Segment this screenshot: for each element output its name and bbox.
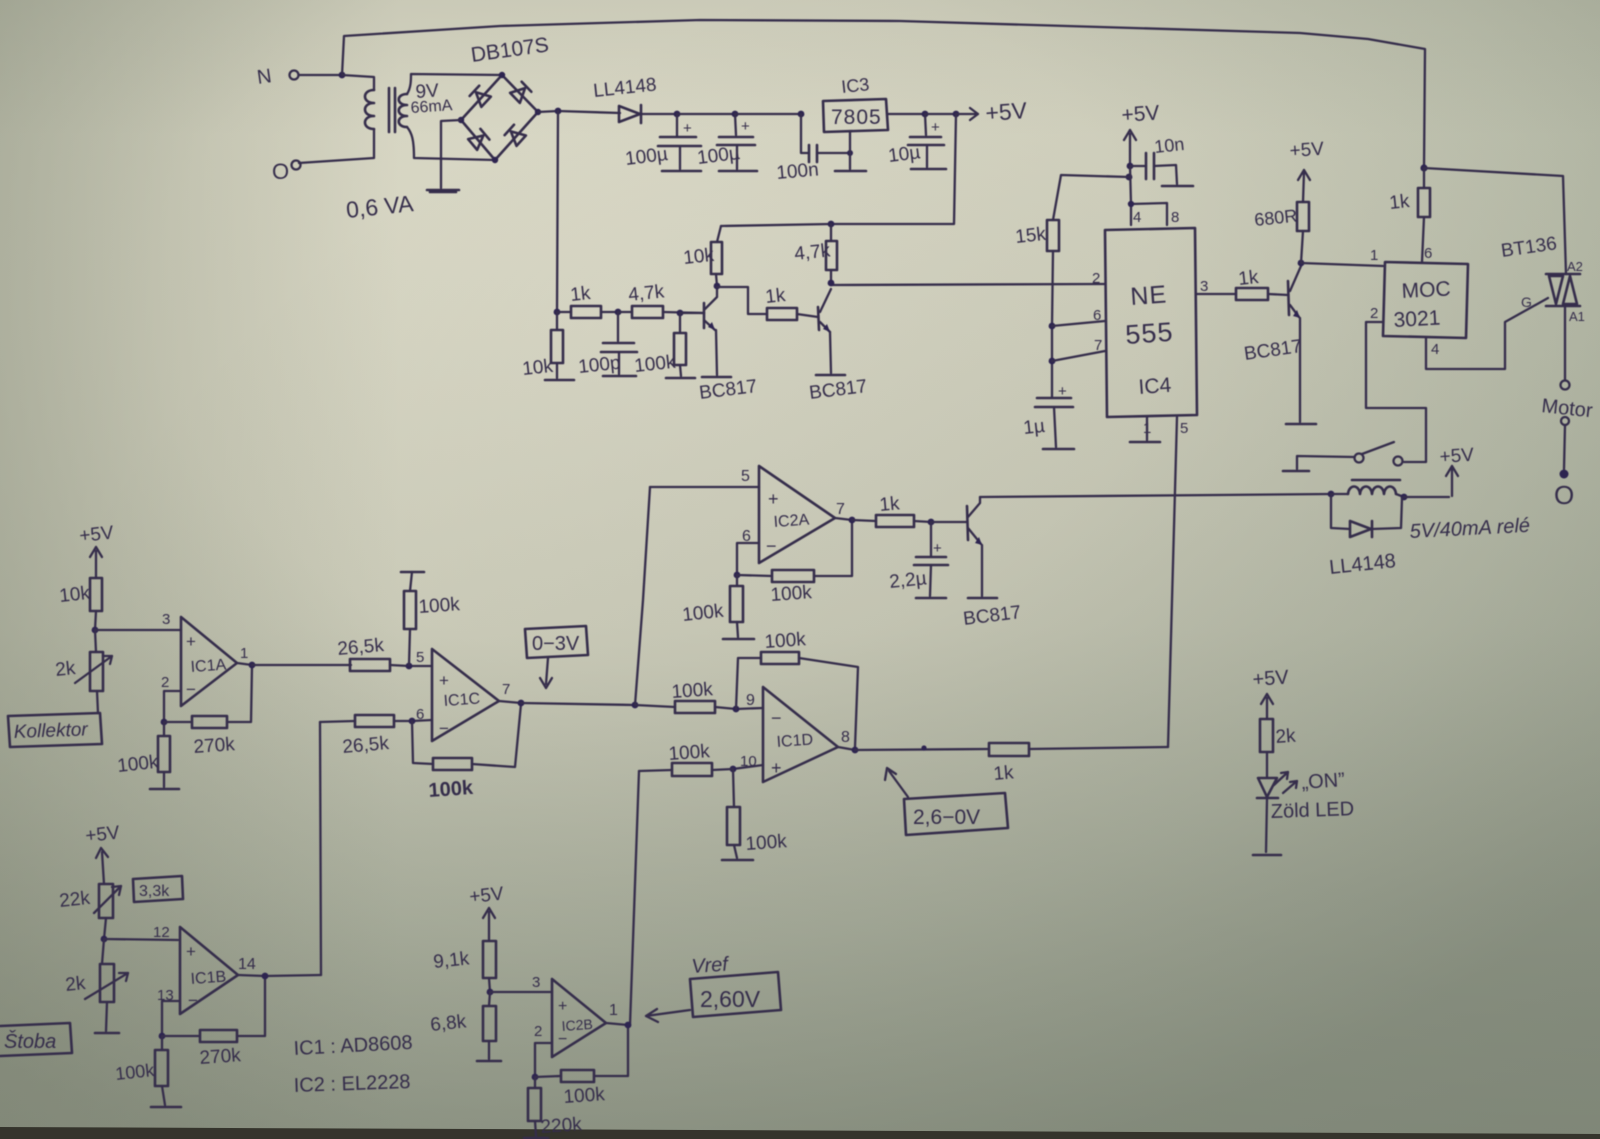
svg-text:2,2µ: 2,2µ (888, 568, 927, 593)
wire +5V rail down to oscillator (721, 114, 956, 227)
svg-text:+5V: +5V (1252, 666, 1290, 691)
label 0,6 VA (345, 190, 415, 223)
wire pin5 (650, 468, 759, 487)
node Q3 collector (1298, 260, 1305, 267)
resistor 9,1k (432, 941, 496, 992)
wire to pin3 (490, 974, 552, 992)
op-amp IC1A (161, 617, 248, 706)
transformer T1 secondary coil (399, 74, 502, 160)
node IC1B output (238, 973, 321, 980)
label 0-3V box with arrow (525, 626, 588, 688)
resistor 270k feedback (162, 977, 265, 1069)
node IC2B output Vref (606, 1022, 631, 1029)
svg-text:7: 7 (1094, 337, 1102, 354)
svg-text:270k: 270k (199, 1045, 242, 1069)
svg-text:7: 7 (502, 681, 510, 698)
node Q1 collector (714, 283, 721, 290)
resistor 26,5k (252, 635, 432, 671)
svg-text:2,6−0V: 2,6−0V (913, 806, 980, 829)
svg-text:1k: 1k (1388, 191, 1411, 214)
svg-text:2,60V: 2,60V (700, 986, 761, 1012)
resistor 1k vertical (1388, 168, 1430, 262)
wire pin10 (730, 765, 763, 772)
wire relay to +5V (1404, 445, 1475, 497)
svg-text:66mA: 66mA (410, 97, 453, 117)
svg-text:1k: 1k (764, 285, 787, 308)
node O terminal (272, 159, 301, 184)
svg-text:1: 1 (240, 645, 248, 662)
wire pin6 (734, 543, 759, 578)
ground LED (1253, 799, 1281, 855)
svg-text:555: 555 (1124, 317, 1174, 350)
pin number labels (1092, 209, 1208, 437)
svg-text:−: − (771, 708, 782, 728)
svg-text:1k: 1k (879, 493, 901, 516)
resistor 6,8k to ground (429, 992, 501, 1061)
power +5V arrow (IC1B divider) (84, 822, 121, 884)
node (733, 706, 740, 713)
transformer T1 primary coil (299, 90, 374, 163)
label 9V 66mA (410, 80, 453, 117)
svg-text:9,1k: 9,1k (432, 948, 470, 973)
op-amp IC1D (740, 687, 850, 782)
label IC1 AD8608 (293, 1032, 413, 1060)
svg-text:IC2A: IC2A (773, 512, 810, 531)
op-amp IC2A (742, 466, 845, 563)
wire top rail (342, 20, 1425, 168)
resistor 100k to ground (114, 1036, 181, 1107)
wire 15k down (1049, 251, 1056, 397)
svg-text:1k: 1k (993, 762, 1015, 785)
wire Q4 collector to relay (980, 491, 1334, 498)
node IC1C output (499, 700, 638, 709)
resistor 100k feedback IC1D (736, 629, 858, 747)
svg-text:6: 6 (1424, 245, 1432, 262)
wire N junction to transformer primary (342, 75, 374, 90)
resistor 100k to ground (681, 575, 754, 639)
resistor 100k to ground (633, 313, 695, 378)
resistor 100k to ground (116, 722, 179, 789)
svg-text:−: − (188, 991, 198, 1010)
wire pin6 (1052, 321, 1105, 326)
trimmer 2k (64, 939, 128, 1033)
svg-text:IC4: IC4 (1138, 374, 1173, 399)
wire to 15k (1053, 175, 1129, 220)
label Vref 2,60V box with arrow (646, 953, 781, 1022)
svg-text:100k: 100k (428, 777, 475, 802)
node IC1D output (838, 747, 858, 754)
svg-text:1k: 1k (1237, 267, 1260, 290)
svg-text:N: N (256, 65, 273, 89)
node (677, 310, 684, 317)
trimmer 22k with 3,3k note (58, 884, 121, 918)
wire (735, 111, 804, 118)
wire Q3 collector to MOC pin1 (1301, 263, 1383, 266)
regulator IC3 7805 (823, 74, 888, 132)
svg-text:100k: 100k (418, 594, 461, 618)
label ON (1301, 769, 1346, 794)
wire from IC1B output up (320, 722, 321, 975)
wire pin2 (161, 691, 181, 725)
svg-text:IC3: IC3 (840, 74, 870, 97)
svg-text:100k: 100k (681, 601, 725, 626)
svg-text:+5V: +5V (468, 883, 505, 908)
svg-text:0−3V: 0−3V (532, 633, 580, 655)
wire to NE555 pin2 (831, 284, 1105, 285)
resistor 100k pull-up with bar (401, 572, 461, 665)
svg-text:Štoba: Štoba (4, 1030, 56, 1053)
capacitor 10n (1130, 134, 1193, 186)
svg-text:Kollektor: Kollektor (13, 719, 88, 743)
resistor 10k to ground (521, 312, 574, 380)
wire Vref up to pin10 resistor (630, 771, 639, 1025)
wire rail to triac A2 (1424, 168, 1566, 274)
label 2,6-0V box with arrow (885, 768, 1008, 835)
trimmer 2k (54, 630, 112, 713)
svg-text:5: 5 (416, 649, 424, 666)
svg-text:2: 2 (161, 674, 169, 691)
wire pin7 (1052, 351, 1105, 361)
svg-text:Vref: Vref (691, 953, 731, 978)
svg-text:MOC: MOC (1401, 277, 1451, 303)
capacitor 1u (1022, 383, 1074, 449)
power +5V arrow (IC1A divider) (78, 522, 115, 578)
node oscillator input (554, 309, 561, 316)
svg-text:G: G (1521, 294, 1532, 310)
svg-text:4: 4 (1431, 341, 1439, 358)
svg-text:100k: 100k (671, 679, 714, 703)
svg-text:−: − (186, 680, 196, 699)
svg-text:+5V: +5V (1439, 445, 1475, 468)
svg-text:2: 2 (1370, 305, 1378, 322)
svg-text:IC1D: IC1D (776, 731, 814, 751)
svg-text:100k: 100k (116, 752, 160, 777)
svg-text:7: 7 (836, 501, 845, 518)
svg-text:22k: 22k (58, 888, 91, 912)
paper bottom edge dark strip (0, 1127, 1600, 1139)
ground (bridge) (427, 120, 461, 192)
svg-text:100k: 100k (114, 1060, 156, 1084)
svg-text:IC1C: IC1C (443, 690, 481, 710)
svg-text:+5V: +5V (1121, 101, 1160, 127)
svg-text:4,7k: 4,7k (793, 240, 831, 265)
svg-text:3: 3 (532, 974, 540, 991)
svg-text:NE: NE (1129, 280, 1168, 310)
svg-text:+: + (558, 998, 567, 1015)
svg-text:−: − (439, 719, 449, 738)
wire pin2 (532, 1043, 552, 1080)
svg-text:5: 5 (1180, 420, 1188, 437)
wire Q1 collector to Q2 base (717, 287, 767, 314)
wire bridge output (538, 108, 620, 115)
svg-text:IC2B: IC2B (561, 1016, 593, 1034)
svg-text:26,5k: 26,5k (342, 733, 391, 758)
switch S1 (1283, 442, 1394, 471)
power +5V arrow (LED) (1252, 666, 1290, 719)
capacitor C1 100u (624, 114, 701, 171)
resistor 100k feedback (535, 1025, 628, 1108)
svg-text:1µ: 1µ (1022, 416, 1046, 439)
svg-text:15k: 15k (1014, 224, 1047, 248)
svg-text:2k: 2k (64, 973, 87, 996)
svg-text:IC2 : EL2228: IC2 : EL2228 (293, 1071, 410, 1097)
transistor Q1 BC817 (680, 286, 758, 404)
capacitor C2 100u (696, 114, 757, 171)
capacitor 2,2u (888, 522, 948, 598)
resistor 1k output (855, 743, 1168, 785)
wire MOC pin2 to switch (1366, 322, 1426, 466)
resistor 270k feedback (164, 666, 252, 758)
transistor Q3 BC817 (1243, 266, 1316, 424)
power +5V arrow (NE555) (1121, 101, 1160, 166)
svg-text:2k: 2k (54, 658, 77, 681)
power +5V arrow (IC2B divider) (468, 883, 505, 941)
node IC2A output (835, 517, 855, 524)
resistor 4,7k horizontal (618, 281, 704, 318)
svg-text:6,8k: 6,8k (429, 1011, 467, 1036)
wire to pin12 (104, 924, 178, 941)
ground pin1 (1130, 417, 1160, 442)
transformer core (389, 88, 395, 132)
svg-text:10n: 10n (1153, 134, 1185, 157)
svg-text:2k: 2k (1275, 726, 1297, 748)
node IC1A output (237, 662, 255, 669)
svg-text:8: 8 (1171, 209, 1179, 226)
node (92, 627, 99, 634)
svg-text:10µ: 10µ (887, 142, 921, 167)
svg-text:100k: 100k (633, 352, 677, 377)
svg-text:+5V: +5V (1289, 139, 1325, 162)
svg-text:A2: A2 (1567, 259, 1583, 274)
svg-text:100k: 100k (668, 741, 711, 765)
wire pins 4,8 (1128, 166, 1167, 225)
resistor 100k feedback IC2A (737, 522, 852, 606)
svg-text:10k: 10k (521, 356, 554, 380)
svg-text:+: + (439, 671, 449, 690)
svg-text:9: 9 (746, 692, 755, 709)
resistor 10k (58, 578, 102, 630)
svg-text:100k: 100k (745, 831, 788, 855)
wire (888, 111, 928, 118)
transistor Q2 BC817 (808, 289, 868, 404)
svg-text:+5V: +5V (78, 522, 115, 547)
node (406, 663, 413, 670)
svg-text:5: 5 (741, 468, 750, 485)
node N terminal (256, 65, 299, 89)
node (409, 718, 416, 725)
svg-text:100k: 100k (563, 1084, 606, 1108)
label Kollektor box (8, 713, 102, 747)
svg-text:A1: A1 (1569, 309, 1585, 324)
svg-text:2: 2 (1092, 270, 1100, 287)
svg-text:Zöld LED: Zöld LED (1270, 798, 1354, 823)
svg-text:3,3k: 3,3k (139, 883, 170, 900)
svg-text:12: 12 (153, 924, 170, 941)
svg-text:+: + (186, 632, 196, 651)
svg-text:270k: 270k (193, 734, 236, 758)
resistor 100k pin9 (635, 679, 763, 713)
relay K1 coil (1331, 480, 1407, 500)
svg-text:100k: 100k (770, 582, 813, 606)
wire (641, 111, 680, 118)
label Stoba box (0, 1023, 72, 1056)
node (101, 918, 108, 942)
resistor 1k horizontal (557, 283, 618, 318)
svg-text:IC1A: IC1A (190, 657, 227, 676)
svg-text:−: − (766, 536, 777, 556)
svg-text:3: 3 (162, 611, 170, 628)
label IC2 EL2228 (293, 1071, 410, 1097)
bridge rectifier DB107S (469, 33, 550, 67)
svg-text:+: + (683, 120, 692, 137)
wire (677, 111, 738, 118)
svg-text:26,5k: 26,5k (337, 635, 386, 660)
svg-text:100n: 100n (776, 159, 820, 184)
resistor 1k (1236, 267, 1288, 300)
node Q2 collector (828, 280, 835, 287)
svg-text:+5V: +5V (985, 97, 1029, 126)
label 3,3k box (133, 876, 183, 902)
svg-text:3: 3 (1200, 278, 1208, 295)
resistor 220k to ground (524, 1077, 583, 1138)
node ink dot on output wire (921, 745, 926, 750)
capacitor C3 100n (776, 114, 866, 184)
svg-text:100p: 100p (577, 353, 621, 378)
resistor 100k to ground (722, 769, 788, 860)
svg-text:+5V: +5V (84, 822, 121, 847)
resistor 100k pin10 (639, 741, 733, 776)
svg-text:3021: 3021 (1393, 307, 1441, 332)
wire N to junction (299, 72, 345, 79)
svg-text:+: + (771, 758, 782, 778)
diode D1 LL4148 (592, 74, 657, 123)
svg-text:6: 6 (1093, 307, 1101, 324)
label Zold LED (1270, 798, 1354, 823)
wire pin3 (1197, 293, 1236, 295)
svg-text:IC1B: IC1B (190, 969, 227, 988)
LED zold (1257, 772, 1297, 798)
op-amp IC2B (534, 979, 618, 1057)
svg-text:1: 1 (609, 1002, 618, 1019)
node +5V output (925, 97, 1028, 126)
transistor Q4 BC817 (962, 497, 1022, 630)
svg-text:100k: 100k (764, 629, 807, 653)
wire MOC pin4 to triac gate (1426, 298, 1548, 369)
resistor 1k (852, 493, 931, 527)
resistor 100k feedback IC1C (412, 704, 521, 802)
resistor 10k vertical (682, 226, 722, 286)
resistor 4,7k vertical (793, 224, 837, 283)
svg-text:7805: 7805 (831, 106, 882, 129)
svg-text:10k: 10k (682, 245, 715, 269)
label relay (1409, 515, 1530, 543)
svg-text:220k: 220k (540, 1114, 583, 1138)
svg-text:+: + (931, 119, 940, 136)
op-amp IC1B (157, 927, 256, 1014)
svg-text:O: O (1554, 480, 1574, 510)
op-amp IC1C (416, 649, 510, 741)
svg-text:+: + (933, 540, 942, 557)
svg-text:+: + (768, 489, 779, 509)
svg-text:+: + (186, 942, 196, 961)
wire bridge node down (557, 111, 558, 312)
svg-text:1: 1 (1370, 247, 1378, 264)
svg-text:10k: 10k (58, 583, 91, 607)
resistor 680R with +5V (1253, 139, 1325, 263)
wire pin13 (159, 1001, 180, 1039)
capacitor C4 10u (887, 114, 946, 169)
wire to IC1A pin3 (95, 611, 181, 630)
diode D2 LL4148 relay (1328, 494, 1402, 579)
resistor 1k horizontal (764, 285, 818, 320)
svg-text:1k: 1k (569, 283, 592, 306)
node Motor terminals (1540, 306, 1593, 510)
svg-text:14: 14 (238, 956, 256, 973)
node (1126, 163, 1134, 181)
opto U2 MOC3021 (1370, 245, 1468, 358)
IC4 NE555 box (1105, 228, 1197, 417)
svg-text:4: 4 (1133, 209, 1141, 226)
node (928, 519, 967, 526)
wire pin5 long down (1168, 417, 1177, 747)
svg-text:+: + (1058, 383, 1067, 400)
node (487, 989, 494, 996)
svg-text:4,7k: 4,7k (627, 281, 665, 306)
resistor 2k (1260, 719, 1297, 777)
svg-text:2: 2 (534, 1023, 542, 1040)
resistor 15k (1014, 220, 1059, 251)
svg-text:+: + (741, 118, 750, 135)
capacitor 100p to ground (577, 312, 637, 378)
triac BT136 (1500, 233, 1585, 324)
svg-text:O: O (272, 159, 289, 184)
svg-text:„ON”: „ON” (1301, 769, 1346, 794)
node (615, 309, 622, 316)
wire IC2A pin5 down to IC1C output node (635, 487, 650, 705)
svg-text:8: 8 (841, 729, 850, 746)
node top rail corner (1420, 164, 1427, 171)
resistor 26,5k lower (320, 715, 432, 758)
